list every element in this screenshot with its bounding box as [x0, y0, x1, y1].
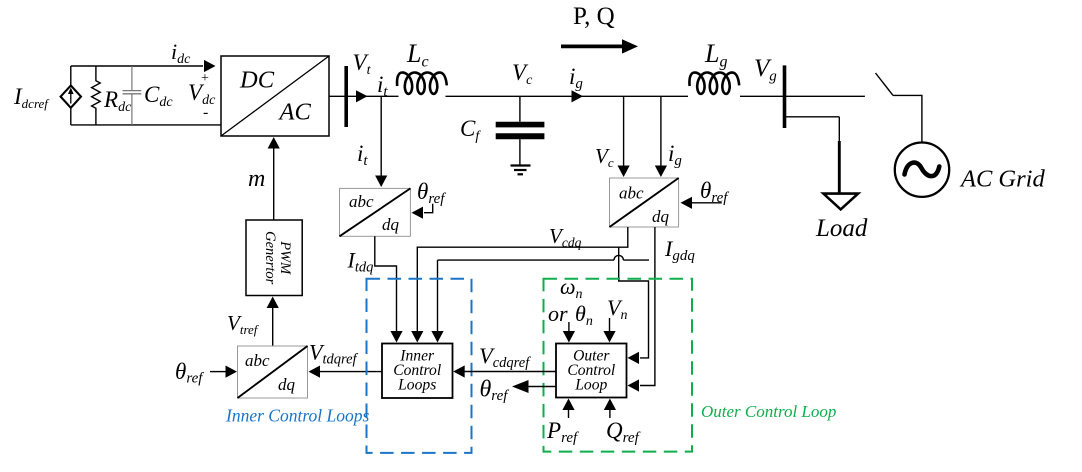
- svg-text:Lg: Lg: [704, 39, 727, 71]
- wire current source branch: [70, 66, 72, 125]
- resistor Rdc: [92, 66, 101, 125]
- capacitor Cf: [496, 96, 545, 165]
- svg-text:Inner Control Loops: Inner Control Loops: [225, 406, 369, 426]
- abc-dq transform block left: [340, 188, 411, 236]
- wire V_tref arrow to PWM: [267, 297, 279, 347]
- svg-text:DC: DC: [239, 67, 275, 94]
- arrow i_t on main line: [356, 90, 368, 102]
- wire i_t tap down: [375, 96, 387, 187]
- green dashed boundary outer control: [544, 279, 693, 452]
- svg-text:dq: dq: [382, 215, 400, 234]
- wire V_cdq branch to outer loop: [619, 247, 649, 364]
- wire V_tdqref from inner loops: [309, 366, 383, 378]
- wire theta_ref output of outer loop: [512, 380, 556, 393]
- arrow i_dc into converter: [204, 60, 216, 72]
- wire V_c tap down: [618, 96, 630, 177]
- svg-text:AC Grid: AC Grid: [959, 166, 1045, 193]
- svg-text:θref: θref: [700, 178, 729, 206]
- svg-text:Vc: Vc: [595, 144, 614, 170]
- label V_dc with plus minus: [188, 71, 216, 121]
- converter DC/AC box: [221, 56, 329, 136]
- PWM generator box: [246, 220, 302, 296]
- wire Lc to Lg: [446, 95, 689, 97]
- inductor Lc: [397, 73, 447, 94]
- wire converter output: [329, 95, 399, 97]
- wire V_n arrow into outer box: [603, 318, 615, 343]
- svg-text:Itdq: Itdq: [347, 248, 374, 276]
- blue dashed boundary inner control: [367, 279, 472, 453]
- wire top rail: [71, 65, 203, 67]
- wire m arrow to converter: [268, 137, 280, 220]
- svg-text:Cf: Cf: [460, 116, 481, 144]
- svg-text:Vt: Vt: [353, 50, 372, 78]
- bus bar Vt: [344, 66, 348, 127]
- svg-text:m: m: [248, 166, 265, 192]
- svg-text:abc: abc: [349, 192, 374, 211]
- svg-text:Igdq: Igdq: [664, 236, 695, 264]
- svg-text:Vcdq: Vcdq: [549, 224, 582, 250]
- wire switch to grid source: [893, 95, 922, 141]
- wire V_cdqref outer to inner: [453, 365, 556, 377]
- svg-text:Vc: Vc: [512, 60, 533, 88]
- wire V_cdq from block: [411, 227, 628, 343]
- svg-text:θref: θref: [480, 377, 510, 405]
- svg-text:Outer Control Loop: Outer Control Loop: [701, 402, 836, 421]
- load symbol triangle: [823, 194, 858, 210]
- svg-text:Vtref: Vtref: [227, 311, 260, 337]
- power flow arrow P,Q: [561, 39, 638, 53]
- inductor Lg: [689, 73, 739, 94]
- svg-text:ig: ig: [668, 141, 682, 169]
- svg-text:or: or: [548, 301, 568, 326]
- svg-text:P, Q: P, Q: [573, 3, 615, 30]
- svg-text:ig: ig: [569, 64, 583, 92]
- current source Idcref diamond: [61, 86, 81, 108]
- svg-text:Pref: Pref: [546, 418, 579, 446]
- bus bar Vg: [783, 65, 787, 128]
- svg-text:Vtdqref: Vtdqref: [309, 340, 359, 368]
- svg-text:θref: θref: [417, 179, 446, 207]
- svg-text:idc: idc: [171, 39, 191, 67]
- wire I_tdq from block to inner loop: [375, 236, 403, 342]
- AC grid source: [895, 143, 949, 197]
- svg-text:θref: θref: [175, 359, 204, 387]
- wire load branch: [785, 117, 840, 193]
- ground: [511, 166, 531, 175]
- svg-text:dq: dq: [278, 375, 296, 394]
- abc-dq transform block right: [610, 178, 679, 227]
- wire theta_ref into left transform: [412, 204, 433, 219]
- svg-text:abc: abc: [619, 184, 644, 203]
- svg-text:Lc: Lc: [406, 39, 429, 71]
- arrow i_g on main line: [572, 90, 584, 102]
- svg-text:Cdc: Cdc: [144, 82, 173, 110]
- dq-abc transform block bottom-left: [238, 346, 308, 398]
- wire P_ref arrow: [562, 399, 574, 419]
- wire bottom rail: [71, 124, 221, 126]
- switch blade: [876, 73, 894, 95]
- svg-text:Vg: Vg: [754, 55, 777, 85]
- svg-text:-: -: [203, 104, 208, 121]
- svg-text:Idcref: Idcref: [13, 84, 50, 111]
- inner control loops box: [382, 344, 453, 399]
- svg-text:dq: dq: [652, 207, 670, 226]
- svg-text:+: +: [201, 71, 209, 86]
- svg-text:Load: Load: [815, 215, 868, 242]
- label or theta_n: [548, 301, 593, 329]
- wire theta_ref input arrow: [210, 366, 237, 378]
- wire Q_ref arrow: [604, 399, 616, 419]
- svg-text:Vcdqref: Vcdqref: [479, 343, 531, 371]
- svg-text:PWMGenertor: PWMGenertor: [262, 231, 293, 285]
- svg-text:Loops: Loops: [397, 377, 436, 394]
- outer control loop box: [556, 344, 627, 398]
- wire theta_ref into right transform: [681, 197, 722, 209]
- wire Lg to switch: [740, 95, 865, 97]
- wire omega arrow into outer box: [563, 322, 575, 343]
- svg-text:θn: θn: [575, 301, 593, 329]
- wire I_gdq from block with hop: [431, 227, 655, 392]
- svg-text:AC: AC: [278, 99, 312, 126]
- wire i_g tap down: [655, 96, 667, 177]
- svg-text:abc: abc: [245, 351, 270, 370]
- capacitor Cdc: [123, 66, 142, 125]
- svg-text:it: it: [377, 72, 388, 100]
- svg-text:ωn: ωn: [560, 274, 583, 302]
- svg-text:Loop: Loop: [574, 377, 607, 394]
- svg-text:it: it: [357, 141, 368, 169]
- svg-text:Qref: Qref: [606, 418, 641, 446]
